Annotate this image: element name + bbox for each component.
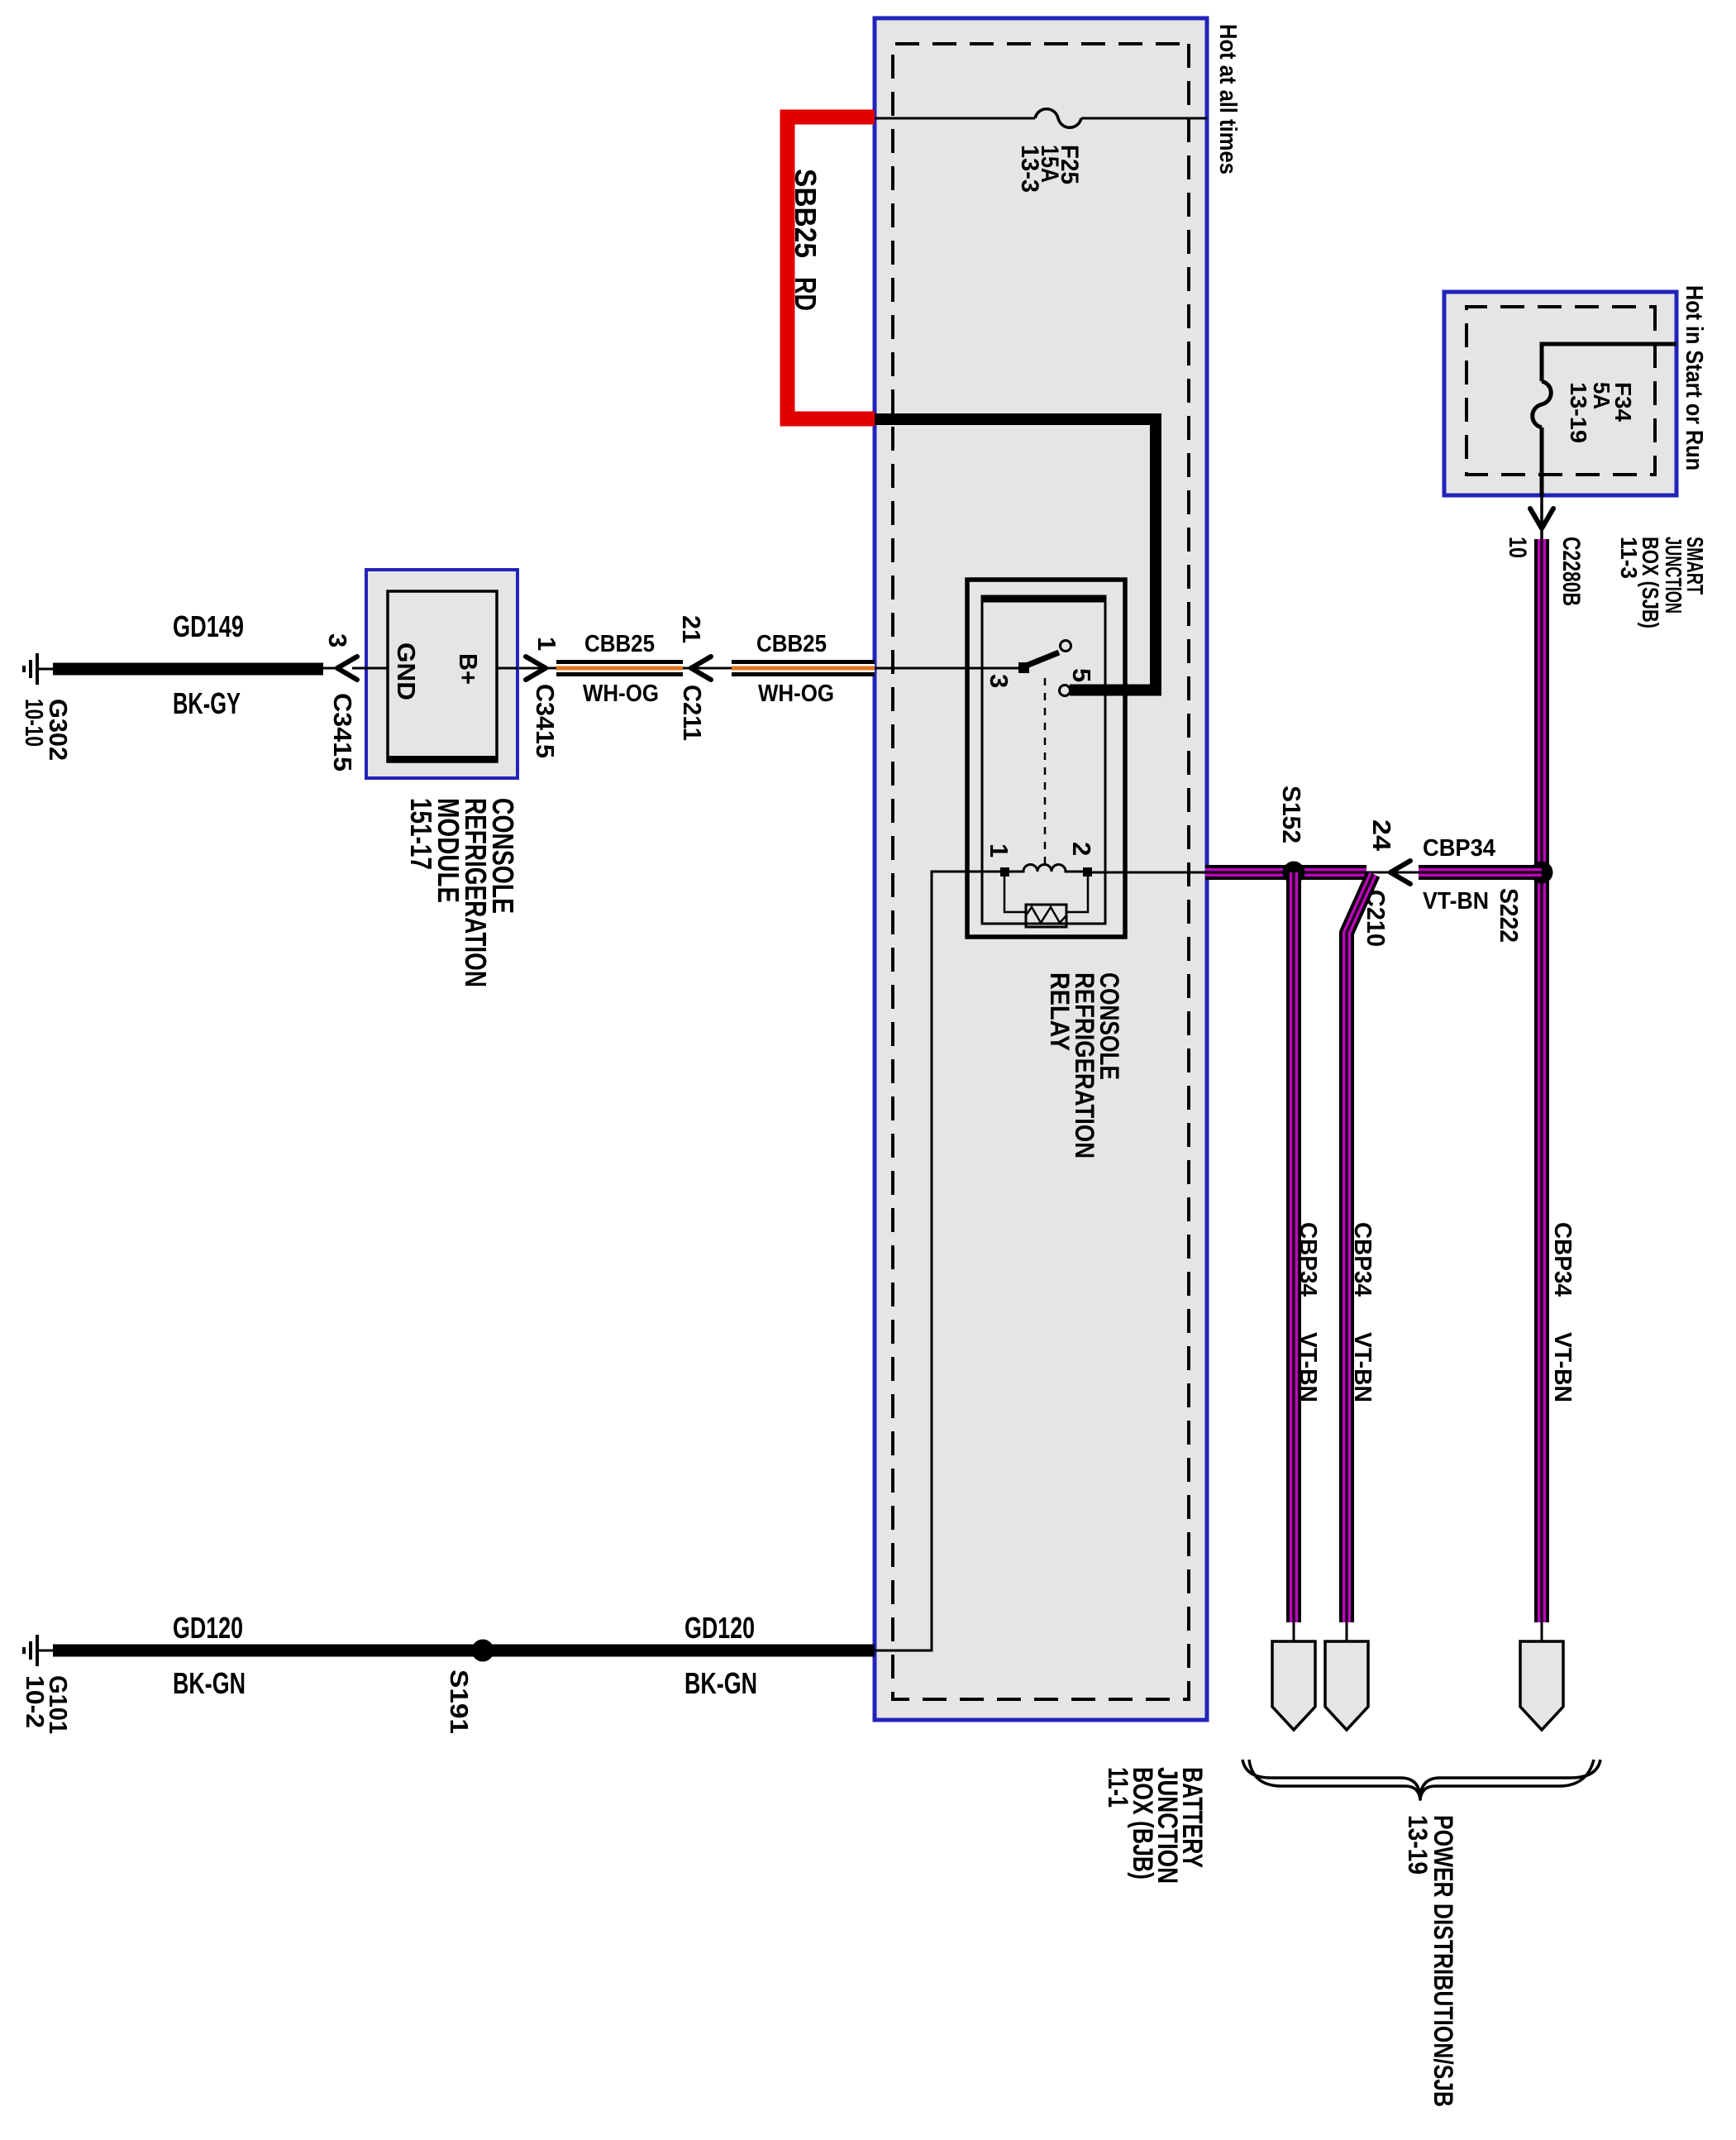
relay coil <box>1004 865 1088 872</box>
svg-text:CBB25: CBB25 <box>584 631 655 657</box>
svg-text:10: 10 <box>1504 537 1531 558</box>
splice S222 <box>1531 862 1553 884</box>
svg-text:10-2: 10-2 <box>21 1675 50 1728</box>
wire CBB25 WH-OG (BJB to C211) <box>683 667 875 670</box>
label: G101 10-2 <box>21 1675 73 1734</box>
svg-text:CBB25: CBB25 <box>756 631 827 657</box>
svg-text:151-17: 151-17 <box>404 798 438 870</box>
fuse F25 <box>1035 109 1081 128</box>
splice S191 <box>472 1640 494 1662</box>
wire: relay pin 3 down to BJB edge <box>875 667 1018 670</box>
label: POWER DISTRIBUTION/SJB 13-19 <box>1403 1815 1458 2107</box>
terminal (bus) <box>1520 1641 1563 1730</box>
console refrigeration module <box>366 570 517 778</box>
wire CBB25 WH-OG (C211 to module) <box>517 667 683 670</box>
wire GD120 BK-GN (thick ground wire) <box>53 1645 875 1657</box>
relay pin 5 contact <box>1060 685 1071 696</box>
connector C211 arrow <box>691 657 711 680</box>
svg-text:C3415: C3415 <box>531 684 560 758</box>
wire: relay pin 2 to BJB edge <box>1088 872 1205 874</box>
relay switch arm end contact <box>1061 641 1071 652</box>
relay pin 1 contact <box>1000 867 1009 877</box>
battery junction box (BJB) <box>875 18 1207 1720</box>
svg-text:Hot at all times: Hot at all times <box>1214 24 1241 174</box>
fuse F34 <box>1533 381 1552 428</box>
svg-text:GD149: GD149 <box>173 609 244 643</box>
wire inside module (B+) <box>497 667 517 670</box>
svg-text:JUNCTION: JUNCTION <box>1661 537 1686 614</box>
wire CBP34 VT-BN vertical (S222 to BJB) <box>1205 872 1542 874</box>
label: CBP34 VT-BN (bus) <box>1549 1222 1576 1402</box>
svg-text:3: 3 <box>323 633 352 647</box>
wire: BJB feed through fuse F25 <box>874 117 1207 120</box>
wire: SJB feed through fuse F34 <box>1542 344 1676 497</box>
svg-text:BK-GN: BK-GN <box>173 1666 246 1700</box>
label: F34 5A 13-19 <box>1566 382 1636 443</box>
svg-text:GD120: GD120 <box>173 1611 243 1645</box>
label: CBP34 VT-BN (C210 branch) <box>1349 1222 1376 1402</box>
svg-text:C3415: C3415 <box>328 693 357 771</box>
relay switch arm <box>1024 652 1059 666</box>
wire GD149 BK-GY (thick ground wire) <box>53 663 323 676</box>
svg-text:VT-BN: VT-BN <box>1423 888 1489 915</box>
svg-text:RD: RD <box>789 277 823 311</box>
svg-text:WH-OG: WH-OG <box>583 681 659 707</box>
svg-text:VT-BN: VT-BN <box>1549 1332 1576 1402</box>
label: CONSOLE REFRIGERATION RELAY <box>1045 972 1124 1158</box>
svg-text:GD120: GD120 <box>684 1611 755 1645</box>
relay switch pin 3 contact <box>1018 662 1029 673</box>
svg-text:S222: S222 <box>1495 888 1524 943</box>
wire CBP34 VT-BN branch from S152 <box>1293 872 1295 1622</box>
terminal lead-ins <box>1294 1622 1542 1641</box>
console refrigeration relay box <box>967 580 1125 937</box>
svg-text:GND: GND <box>392 642 421 700</box>
svg-text:5A: 5A <box>1589 382 1614 409</box>
svg-text:13-19: 13-19 <box>1403 1815 1433 1875</box>
svg-text:10-10: 10-10 <box>20 699 49 747</box>
svg-text:VT-BN: VT-BN <box>1349 1332 1376 1402</box>
svg-text:WH-OG: WH-OG <box>758 681 834 707</box>
label: G302 10-10 <box>20 699 73 761</box>
relay suppression resistor <box>1004 872 1088 927</box>
connector C3415 arrow (B+ side) <box>526 657 546 680</box>
svg-text:S191: S191 <box>445 1669 474 1734</box>
svg-text:13-19: 13-19 <box>1566 382 1591 443</box>
svg-text:5: 5 <box>1067 668 1096 682</box>
label: BATTERY JUNCTION BOX (BJB) 11-1 <box>1102 1767 1208 1884</box>
connector C210 arrow <box>1390 861 1410 884</box>
svg-text:3: 3 <box>985 674 1013 688</box>
svg-text:S152: S152 <box>1277 786 1306 843</box>
label: SBB25 RD <box>789 169 823 311</box>
svg-text:13-3: 13-3 <box>1016 145 1043 193</box>
svg-text:11-3: 11-3 <box>1616 537 1642 579</box>
svg-text:VT-BN: VT-BN <box>1295 1332 1321 1402</box>
svg-text:SBB25: SBB25 <box>789 169 823 258</box>
svg-text:CBP34: CBP34 <box>1423 835 1495 862</box>
svg-text:21: 21 <box>677 615 706 643</box>
svg-text:RELAY: RELAY <box>1045 972 1075 1051</box>
svg-text:Hot in Start or Run: Hot in Start or Run <box>1681 285 1707 471</box>
splice S152 <box>1283 862 1305 884</box>
relay armature link (dashed) <box>1044 678 1047 866</box>
label: CONSOLE REFRIGERATION MODULE 151-17 <box>404 798 520 987</box>
wire inside module (GND) <box>352 667 388 670</box>
ground G302 <box>24 653 53 685</box>
wire below C3415 <box>322 667 338 670</box>
relay pin 2 contact <box>1083 867 1092 877</box>
label: SMART JUNCTION BOX (SJB) 11-3 <box>1616 537 1708 628</box>
svg-text:CBP34: CBP34 <box>1349 1222 1376 1297</box>
svg-text:11-1: 11-1 <box>1102 1767 1133 1808</box>
brace (power distribution group) <box>1242 1760 1600 1799</box>
label: F25 15A 13-3 <box>1016 145 1083 193</box>
wire SBB25 RD (red loop) <box>788 117 875 419</box>
svg-text:C2280B: C2280B <box>1557 537 1585 606</box>
svg-text:BK-GY: BK-GY <box>173 686 241 720</box>
connector C2280B arrow <box>1530 509 1553 528</box>
svg-text:2: 2 <box>1067 842 1096 856</box>
connector C3415 arrow (GND side) <box>337 657 357 680</box>
svg-text:C211: C211 <box>678 685 707 741</box>
svg-text:1: 1 <box>985 843 1013 857</box>
svg-text:1: 1 <box>532 637 561 651</box>
label: CBP34 VT-BN (S152 branch) <box>1295 1222 1321 1402</box>
smart junction box (SJB) <box>1444 292 1676 495</box>
svg-text:CBP34: CBP34 <box>1295 1222 1321 1297</box>
svg-text:BK-GN: BK-GN <box>684 1666 757 1700</box>
svg-text:24: 24 <box>1367 819 1396 852</box>
svg-text:CBP34: CBP34 <box>1549 1222 1576 1297</box>
wire: relay pin 1 to ground run <box>873 872 1004 1650</box>
terminal (C210 branch) <box>1325 1641 1368 1730</box>
terminal (S152 branch) <box>1272 1641 1315 1730</box>
wire CBP34 VT-BN bus (SJB to power distribution) <box>1541 539 1543 1622</box>
wire CBP34 VT-BN branch through C210 <box>1347 874 1373 1622</box>
wire: thick jumper from SBB25 to relay pin 5 <box>875 419 1156 690</box>
svg-text:B+: B+ <box>454 653 483 685</box>
ground G101 <box>24 1635 53 1666</box>
